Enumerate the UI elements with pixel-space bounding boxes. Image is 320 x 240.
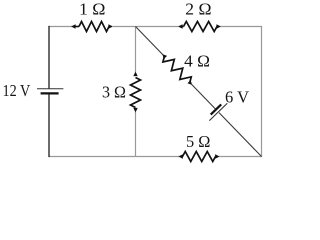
wire: right side xyxy=(261,27,263,157)
battery V2 6V long plate xyxy=(209,103,227,120)
wire: top segment R1 to middle node xyxy=(113,26,179,28)
svg-text:6 V: 6 V xyxy=(225,87,249,106)
wire: bottom-right segment xyxy=(220,156,263,158)
svg-text:5 Ω: 5 Ω xyxy=(186,132,210,151)
svg-text:12 V: 12 V xyxy=(3,81,31,100)
resistor R1 1 ohm xyxy=(71,22,113,32)
svg-text:1 Ω: 1 Ω xyxy=(79,0,106,18)
svg-text:3 Ω: 3 Ω xyxy=(102,83,126,102)
wire: top segment R2 to top-right corner xyxy=(221,26,263,28)
wire: left side above battery xyxy=(48,26,50,89)
resistor R2 2 ohm xyxy=(178,22,221,32)
wire: left side below battery xyxy=(48,93,50,157)
battery V2 6V short plate xyxy=(211,104,221,114)
battery V1 12V short plate xyxy=(41,92,59,94)
wire: diagonal between R4 and 6V battery xyxy=(192,85,215,109)
wire: middle branch above R3 xyxy=(135,27,137,73)
resistor R5 5 ohm xyxy=(178,152,219,162)
wire: top-left segment (node TL to R1) xyxy=(48,26,72,28)
resistor R4 4 ohm xyxy=(162,54,192,85)
svg-text:2 Ω: 2 Ω xyxy=(185,0,211,19)
battery V1 12V long plate xyxy=(37,88,63,90)
wire: diagonal from 6V battery to bottom-right corner xyxy=(219,113,261,157)
svg-text:4 Ω: 4 Ω xyxy=(184,51,210,70)
wire: middle branch below R3 xyxy=(135,112,137,157)
resistor R3 3 ohm xyxy=(131,72,141,113)
wire: bottom-left segment xyxy=(49,156,179,158)
wire: diagonal from middle-top node to R4 xyxy=(136,27,163,55)
